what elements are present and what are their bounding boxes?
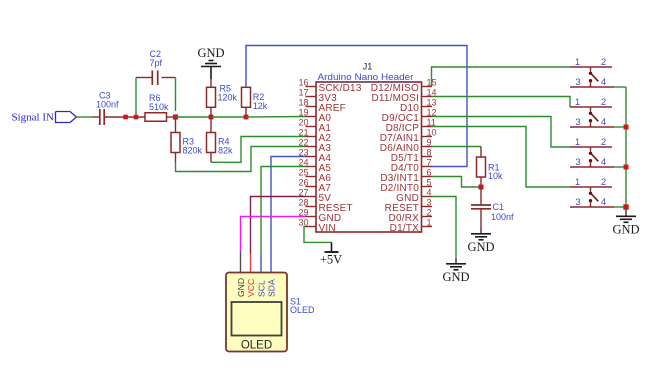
svg-text:Arduino Nano Header: Arduino Nano Header [318,72,414,82]
svg-text:82k: 82k [218,146,233,156]
svg-text:4: 4 [427,187,432,197]
svg-text:13: 13 [427,97,437,107]
push button SW1 [570,57,614,87]
display module S1 OLED [226,273,287,352]
capacitor C3 [92,91,126,126]
svg-text:18: 18 [298,97,308,107]
svg-text:100nf: 100nf [96,100,119,110]
svg-text:2: 2 [601,57,606,67]
svg-text:GND: GND [612,222,639,236]
junction bus b4 [623,204,628,209]
svg-text:19: 19 [298,107,308,117]
svg-text:D1/TX: D1/TX [390,223,419,234]
svg-text:3: 3 [575,157,580,167]
svg-text:OLED: OLED [241,340,272,352]
resistor R5 [207,79,238,117]
svg-text:GND: GND [467,240,494,254]
svg-text:6: 6 [427,167,432,177]
svg-text:GND: GND [442,270,469,284]
junction node A [173,114,178,119]
svg-text:GND: GND [236,278,246,297]
svg-text:28: 28 [298,197,308,207]
svg-text:820k: 820k [183,146,203,156]
ground GND above R5 [197,46,224,79]
capacitor C1 [471,187,514,228]
resistor R1 [477,147,504,188]
svg-text:+5V: +5V [320,253,342,267]
resistor R3 [171,117,203,162]
svg-text:Signal IN: Signal IN [12,112,55,124]
svg-text:GND: GND [197,46,224,60]
svg-text:C1: C1 [493,202,505,212]
junction C2 left branch [134,115,139,120]
wire VIN to +5V [304,227,332,243]
svg-text:120k: 120k [218,93,238,103]
svg-text:1: 1 [427,217,432,227]
svg-text:SDA: SDA [267,279,277,297]
svg-text:2: 2 [601,97,606,107]
svg-text:9: 9 [427,137,432,147]
svg-text:3: 3 [575,117,580,127]
wire C2 left leg [135,78,137,117]
junction node C [244,115,249,120]
svg-text:1: 1 [575,97,580,107]
resistor R2 [242,87,268,117]
svg-text:2: 2 [601,137,606,147]
svg-text:1: 1 [575,177,580,187]
wire D8/ICP to SW4 [432,127,571,188]
wire node B to node C [211,116,246,118]
wire D11/MOSI to SW2 [432,97,571,108]
wire C2 right leg [175,78,177,112]
svg-text:VCC: VCC [246,279,256,297]
svg-text:2: 2 [427,207,432,217]
svg-text:25: 25 [298,167,308,177]
power +5V [320,242,342,266]
lead GND grey [240,252,242,273]
svg-text:4: 4 [601,117,606,127]
wire 5V to VCC (dark magenta) [251,197,306,254]
junction bus b3 [624,165,629,170]
svg-text:21: 21 [298,127,308,137]
push button SW2 [570,97,614,127]
svg-text:8: 8 [427,147,432,157]
wire A4 to SDA (blue) [271,157,306,273]
svg-text:5: 5 [427,177,432,187]
svg-text:10: 10 [427,127,437,137]
wire GND pin29 to OLED (magenta) [241,217,306,252]
resistor R6 [145,93,169,121]
svg-text:VIN: VIN [319,223,336,234]
svg-text:2: 2 [601,177,606,187]
push button SW3 [570,137,614,167]
svg-text:12k: 12k [253,101,268,111]
lead VCC red [250,254,252,273]
wire D6/AIN0 to R1 top [432,146,482,148]
svg-text:4: 4 [601,157,606,167]
ground GND buttons [612,207,639,236]
lead SCL blue [260,253,262,273]
wire node A to node B [176,116,212,118]
wire D12/MISO to SW1 [432,67,571,87]
wire R6 to node A [167,116,176,118]
svg-text:510k: 510k [149,102,169,112]
capacitor C2 [136,49,176,85]
svg-text:4: 4 [601,77,606,87]
svg-text:20: 20 [298,117,308,127]
junction node B [209,115,214,120]
ground GND below pin4 [442,258,469,284]
junction R1/C1/D3 node [479,185,484,190]
wire R4 to pin A2 [211,137,306,163]
svg-text:SCL: SCL [257,280,267,297]
svg-text:3: 3 [575,77,580,87]
svg-text:100nf: 100nf [491,212,514,222]
wire C3 to R6 [126,116,146,118]
wire node C to pin A0 [246,116,306,119]
wire R2 to pin D4/T0 (blue net) [246,46,467,167]
connector J1 Arduino Nano Header [298,62,436,234]
svg-text:26: 26 [298,177,308,187]
junction on input node [123,115,128,120]
wire button bus to ground [614,87,626,207]
svg-text:1: 1 [575,137,580,147]
svg-text:10k: 10k [488,171,503,181]
svg-text:7: 7 [427,157,432,167]
svg-text:3: 3 [575,197,580,207]
svg-text:4: 4 [601,197,606,207]
ground GND below C1 [467,228,494,254]
svg-text:22: 22 [298,137,308,147]
junction bus b2 [624,125,629,130]
wire A5 to SCL [261,167,306,254]
label S1 OLED [290,297,315,316]
port Signal IN [12,112,77,124]
svg-text:7pf: 7pf [150,58,163,68]
push button SW4 [570,177,614,207]
svg-text:3: 3 [427,197,432,207]
svg-text:16: 16 [298,77,308,87]
wire signal-in to C3 [77,116,93,118]
wire GND pin4 to ground [432,197,457,259]
svg-text:OLED: OLED [290,305,315,315]
wire D3/INT1 to R1 bottom node [432,177,482,188]
svg-text:17: 17 [298,87,308,97]
svg-text:J1: J1 [363,62,373,72]
svg-text:1: 1 [575,57,580,67]
wire R3 to pin A3 [176,147,306,172]
wire D9/OC1 to SW3 [432,117,571,148]
resistor R4 [207,117,234,162]
